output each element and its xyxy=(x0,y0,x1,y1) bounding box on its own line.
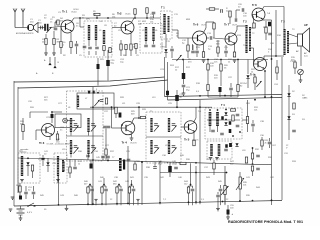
coil winding L19 xyxy=(21,156,23,176)
value label R3 xyxy=(82,15,86,19)
svg-text:15k: 15k xyxy=(150,21,154,23)
junction xyxy=(92,203,94,205)
value label R26 xyxy=(20,121,25,125)
terminal arrow B xyxy=(53,57,56,68)
wire xyxy=(251,47,254,49)
svg-text:T 3: T 3 xyxy=(281,20,285,24)
wire xyxy=(72,18,75,22)
value label C13 xyxy=(208,46,213,50)
capacitor C30 xyxy=(154,124,158,126)
value label T5 xyxy=(150,111,153,113)
wire xyxy=(190,163,192,184)
wire xyxy=(80,26,84,28)
wire xyxy=(192,192,194,206)
wire bus xyxy=(271,20,273,205)
value label C43 xyxy=(125,181,130,183)
wire xyxy=(88,132,90,136)
oscillator coil L19 enclosure xyxy=(18,153,40,183)
diode D2 xyxy=(287,93,290,96)
wire xyxy=(70,33,72,41)
value label R2 xyxy=(63,55,67,57)
wire xyxy=(224,173,226,186)
svg-text:C5: C5 xyxy=(79,55,83,57)
wire xyxy=(220,60,222,65)
svg-text:2k: 2k xyxy=(265,142,268,144)
junction xyxy=(195,162,197,164)
wire xyxy=(192,44,194,50)
svg-text:12: 12 xyxy=(110,199,113,201)
value label C11 xyxy=(166,41,171,43)
value label 12 xyxy=(226,199,229,201)
wire xyxy=(183,79,185,84)
svg-text:470: 470 xyxy=(188,61,192,63)
coil winding L3 xyxy=(95,25,97,40)
svg-text:50: 50 xyxy=(238,6,241,8)
capacitor C50 xyxy=(174,167,178,169)
svg-text:OA70: OA70 xyxy=(160,45,166,48)
AF transformer T7 xyxy=(119,158,125,171)
wire xyxy=(176,101,178,107)
resistor R43 xyxy=(128,187,130,193)
capacitor C6 xyxy=(88,47,92,49)
wire xyxy=(263,56,265,59)
wire xyxy=(235,10,237,18)
value label R39 xyxy=(186,159,191,161)
label Tr 7 xyxy=(224,23,230,27)
value label C9 xyxy=(118,30,122,32)
svg-text:L2: L2 xyxy=(88,30,91,32)
value label C6 xyxy=(76,23,80,27)
capacitor C68 xyxy=(83,46,87,48)
wire xyxy=(101,193,103,205)
wire xyxy=(172,29,178,31)
value label R19 xyxy=(214,75,219,79)
electrolytic C20 xyxy=(106,60,110,66)
svg-text:L6: L6 xyxy=(155,30,158,32)
wire xyxy=(195,107,197,118)
wire xyxy=(165,34,167,48)
value label R42 xyxy=(113,181,118,185)
wire xyxy=(252,15,254,18)
wire xyxy=(22,118,24,125)
coil winding L5 xyxy=(145,27,147,41)
junction xyxy=(195,201,197,203)
value label C42 xyxy=(270,177,275,179)
wire xyxy=(206,8,209,10)
diode D9 xyxy=(235,143,238,146)
value label C17 xyxy=(180,94,185,98)
junction xyxy=(239,200,241,202)
wire xyxy=(131,180,133,185)
value label C29 xyxy=(168,103,173,105)
svg-text:L18: L18 xyxy=(242,150,246,152)
wire xyxy=(207,60,209,65)
wire xyxy=(57,176,59,183)
wire xyxy=(235,30,238,35)
capacitor C21 xyxy=(88,91,95,94)
wire xyxy=(209,126,211,132)
resistor R53 xyxy=(261,140,263,146)
svg-text:Tr2: Tr2 xyxy=(117,12,122,16)
wire xyxy=(133,186,135,188)
value label MF3 xyxy=(186,19,191,21)
value label C8 xyxy=(104,25,108,27)
ground xyxy=(226,217,230,219)
wire xyxy=(159,17,162,19)
wire xyxy=(171,52,173,59)
svg-text:D3: D3 xyxy=(302,119,306,121)
svg-text:100µ: 100µ xyxy=(172,163,177,165)
junction xyxy=(199,201,201,203)
wire xyxy=(30,111,48,113)
resistor R50 xyxy=(217,47,219,53)
svg-text:9: 9 xyxy=(96,89,98,91)
svg-text:R32: R32 xyxy=(255,149,260,151)
svg-text:D2: D2 xyxy=(292,91,296,93)
svg-text:R28: R28 xyxy=(120,97,125,99)
svg-text:R1: R1 xyxy=(52,17,56,19)
svg-text:R46: R46 xyxy=(74,195,79,197)
svg-text:Z=5: Z=5 xyxy=(304,55,308,57)
value label R32 xyxy=(255,149,260,151)
value label L15 xyxy=(165,145,169,147)
svg-text:L13: L13 xyxy=(152,97,156,99)
value label R xyxy=(226,8,229,12)
wire xyxy=(49,137,51,141)
wire xyxy=(242,119,248,121)
wire xyxy=(125,50,127,57)
capacitor C41 xyxy=(104,189,108,191)
trimmer CT6 xyxy=(171,126,176,132)
junction xyxy=(220,59,222,61)
FM tuner L8 enclosure xyxy=(67,91,104,161)
wire xyxy=(207,37,210,39)
value label R5 xyxy=(93,11,97,15)
svg-text:3k3: 3k3 xyxy=(216,43,220,45)
svg-text:T 1: T 1 xyxy=(161,6,165,10)
wire xyxy=(269,145,271,149)
FM IF T5 enclosure xyxy=(146,112,181,163)
junction xyxy=(254,99,256,101)
coil winding L18 xyxy=(218,144,221,156)
svg-text:5µ: 5µ xyxy=(208,48,211,50)
terminal arrow A xyxy=(48,57,51,65)
wire vertical bus x93 xyxy=(92,87,94,205)
wire xyxy=(145,41,147,44)
capacitor C27 xyxy=(74,146,78,148)
wire xyxy=(95,40,97,46)
svg-text:OC44: OC44 xyxy=(71,12,77,14)
wire xyxy=(60,27,62,42)
wire xyxy=(90,160,92,164)
capacitor C57 xyxy=(195,51,199,53)
svg-text:C18: C18 xyxy=(270,43,275,45)
diode D5 xyxy=(224,112,227,115)
value label R18 xyxy=(210,63,215,67)
wire xyxy=(190,185,192,187)
svg-text:D3: D3 xyxy=(292,114,296,116)
wire xyxy=(203,44,205,52)
wire vertical x196 xyxy=(195,166,197,204)
wire xyxy=(264,55,278,57)
wire xyxy=(217,198,219,206)
junction xyxy=(222,201,224,203)
value label C19 xyxy=(290,61,295,63)
junction xyxy=(127,203,129,205)
svg-text:R28: R28 xyxy=(142,109,147,111)
wire xyxy=(87,158,89,160)
wire xyxy=(67,120,75,122)
svg-text:R37: R37 xyxy=(110,151,115,153)
svg-text:RADIORICEVITORE PHONOLA Mod.: RADIORICEVITORE PHONOLA Mod. T 901 xyxy=(228,220,303,224)
resistor R9 xyxy=(202,52,204,58)
wire xyxy=(33,195,35,200)
value label C5 xyxy=(79,55,83,57)
wire xyxy=(118,185,120,187)
value label L18 xyxy=(242,150,246,152)
junction xyxy=(96,17,98,19)
value label D2 xyxy=(292,91,296,93)
junction xyxy=(176,106,178,108)
wire xyxy=(207,70,209,84)
svg-text:R11: R11 xyxy=(196,47,201,49)
resistor R7 xyxy=(130,44,132,50)
svg-text:R41: R41 xyxy=(130,177,135,179)
value label C40 xyxy=(178,177,183,179)
resistor R46 xyxy=(19,186,21,192)
wire xyxy=(169,162,171,166)
wire xyxy=(239,172,241,177)
value label B xyxy=(58,62,60,64)
svg-text:D4: D4 xyxy=(244,83,248,85)
wire xyxy=(278,55,284,57)
wire xyxy=(120,40,122,44)
wire xyxy=(127,146,129,150)
resistor R24 xyxy=(105,98,107,104)
svg-text:12: 12 xyxy=(226,199,229,201)
value label R17 xyxy=(175,67,180,71)
antenna ANT1 xyxy=(13,9,17,28)
value label L20 xyxy=(62,149,66,151)
value label Tr8 xyxy=(267,12,271,15)
capacitor C33 xyxy=(172,146,176,148)
svg-text:1k: 1k xyxy=(175,69,178,71)
transistor Tr1 xyxy=(61,20,74,33)
value label 1,5 xyxy=(201,199,205,201)
value label L13 xyxy=(152,97,156,99)
junction xyxy=(190,184,192,186)
value label OC44 xyxy=(73,9,79,11)
svg-text:1k: 1k xyxy=(78,163,81,165)
wire xyxy=(89,185,91,187)
junction xyxy=(264,96,266,98)
value label R33 xyxy=(292,161,297,163)
junction xyxy=(97,92,99,94)
svg-text:R17: R17 xyxy=(186,67,191,69)
value label 10 xyxy=(63,42,66,46)
capacitor C14 xyxy=(268,33,272,35)
value label AP xyxy=(304,52,308,57)
capacitor C44 xyxy=(191,189,195,191)
junction xyxy=(141,161,143,163)
capacitor C40 xyxy=(90,189,94,191)
wire xyxy=(45,34,47,38)
svg-text:4µ: 4µ xyxy=(182,42,185,44)
bus wire upper frame A xyxy=(14,77,165,82)
value label R14 xyxy=(268,49,273,53)
wire xyxy=(91,192,93,206)
wire xyxy=(188,186,190,187)
wire xyxy=(215,8,219,10)
wire xyxy=(105,186,107,188)
capacitor C42 xyxy=(119,189,123,191)
label 4,5 V xyxy=(27,212,33,214)
transformer T2 primary xyxy=(245,25,247,53)
junction xyxy=(103,184,105,186)
svg-text:R43: R43 xyxy=(206,177,211,179)
wire xyxy=(134,14,136,18)
wire xyxy=(112,27,121,29)
value label R41 xyxy=(130,177,135,179)
svg-text:130: 130 xyxy=(38,22,42,24)
svg-text:L3: L3 xyxy=(99,30,102,32)
resistor R59 xyxy=(209,8,215,10)
ground xyxy=(209,158,213,160)
resistor R31 xyxy=(246,117,248,124)
value label C41 xyxy=(98,181,103,183)
value label R7 xyxy=(138,21,142,25)
transistor Tr8 xyxy=(252,8,265,21)
wire xyxy=(254,83,256,90)
wire xyxy=(213,38,225,39)
wire xyxy=(95,51,97,55)
value label R27 xyxy=(56,139,61,143)
resistor R57 xyxy=(135,44,137,49)
wire vertical bus x200 xyxy=(199,100,201,204)
tuning indicator box xyxy=(55,114,81,128)
svg-text:C13: C13 xyxy=(207,33,212,35)
wire xyxy=(252,159,254,163)
wire xyxy=(196,54,198,58)
value label C31 xyxy=(284,153,289,155)
wire xyxy=(227,205,229,210)
ground xyxy=(202,60,206,62)
value label T2 xyxy=(252,33,255,35)
value label OC45 xyxy=(125,14,131,16)
value label R15 xyxy=(291,57,296,61)
capacitor C65 xyxy=(152,12,156,14)
diode D8 xyxy=(46,162,49,165)
capacitor C67 xyxy=(268,142,272,144)
svg-text:C9: C9 xyxy=(136,55,140,57)
wire xyxy=(281,57,283,200)
value label R2 xyxy=(57,39,61,43)
svg-text:50µ: 50µ xyxy=(111,62,115,64)
resistor R40 xyxy=(87,187,89,193)
wire xyxy=(217,53,219,57)
label Tr 8 xyxy=(252,3,257,7)
wire xyxy=(74,160,76,167)
wire xyxy=(204,28,207,33)
junction xyxy=(209,109,211,111)
resistor R1 xyxy=(45,39,47,45)
junction xyxy=(89,184,91,186)
potentiometer R45 xyxy=(221,186,229,196)
junction xyxy=(101,203,103,205)
junction xyxy=(118,184,120,186)
junction xyxy=(138,106,140,108)
svg-text:Tr 4: Tr 4 xyxy=(122,141,128,145)
wire xyxy=(153,41,155,44)
wire xyxy=(69,173,71,178)
wire inner left vertical xyxy=(17,87,19,193)
junction xyxy=(232,135,234,137)
trimmer C64 xyxy=(94,100,99,106)
trimmer R23 xyxy=(256,81,261,87)
wire xyxy=(236,9,240,11)
resistor R5 xyxy=(134,9,136,15)
tuning drive cone xyxy=(34,23,38,33)
resistor R6 xyxy=(146,8,148,14)
svg-text:10µ: 10µ xyxy=(120,61,124,63)
wire xyxy=(205,22,207,28)
tuning gang C2 xyxy=(44,24,48,31)
wire xyxy=(221,8,223,10)
value label R14 xyxy=(263,27,268,29)
wire vertical x58 xyxy=(58,158,60,205)
coil winding L17 xyxy=(210,144,213,156)
capacitor C32 xyxy=(154,146,158,148)
svg-text:Tr 5: Tr 5 xyxy=(184,138,190,142)
capacitor C58 xyxy=(224,51,228,53)
ground xyxy=(136,199,139,200)
svg-text:1,5: 1,5 xyxy=(201,199,205,201)
svg-text:C37: C37 xyxy=(206,159,211,161)
wire xyxy=(247,124,249,133)
value label C2 xyxy=(44,15,48,19)
capacitor C51 xyxy=(24,192,28,194)
label ANTENNA FERRITE xyxy=(16,32,34,35)
diode D7 xyxy=(26,162,29,165)
value label R38 xyxy=(136,161,141,163)
capacitor C45 xyxy=(101,156,105,158)
wire xyxy=(79,18,81,27)
wire xyxy=(252,127,254,133)
wire xyxy=(234,44,236,53)
value label 7,2 xyxy=(163,199,167,201)
svg-text:R26: R26 xyxy=(30,107,35,109)
junction xyxy=(275,55,277,57)
junction xyxy=(252,200,254,202)
svg-text:OC45: OC45 xyxy=(125,14,131,16)
potentiometer R35 xyxy=(236,177,244,190)
capacitor C36 xyxy=(211,130,215,132)
value label R6 xyxy=(112,14,116,18)
electrolytic C76 xyxy=(97,64,100,69)
svg-text:C39: C39 xyxy=(144,177,149,179)
svg-text:R45: R45 xyxy=(218,181,223,183)
wire xyxy=(294,60,296,62)
wire xyxy=(253,61,255,64)
capacitor C59 xyxy=(242,8,244,12)
svg-text:5n: 5n xyxy=(76,25,79,27)
value label C10 xyxy=(150,14,155,18)
resistor R28 xyxy=(141,116,146,118)
wire xyxy=(192,186,194,188)
wire xyxy=(193,133,195,141)
svg-text:R13: R13 xyxy=(237,35,242,37)
wire xyxy=(45,45,47,54)
